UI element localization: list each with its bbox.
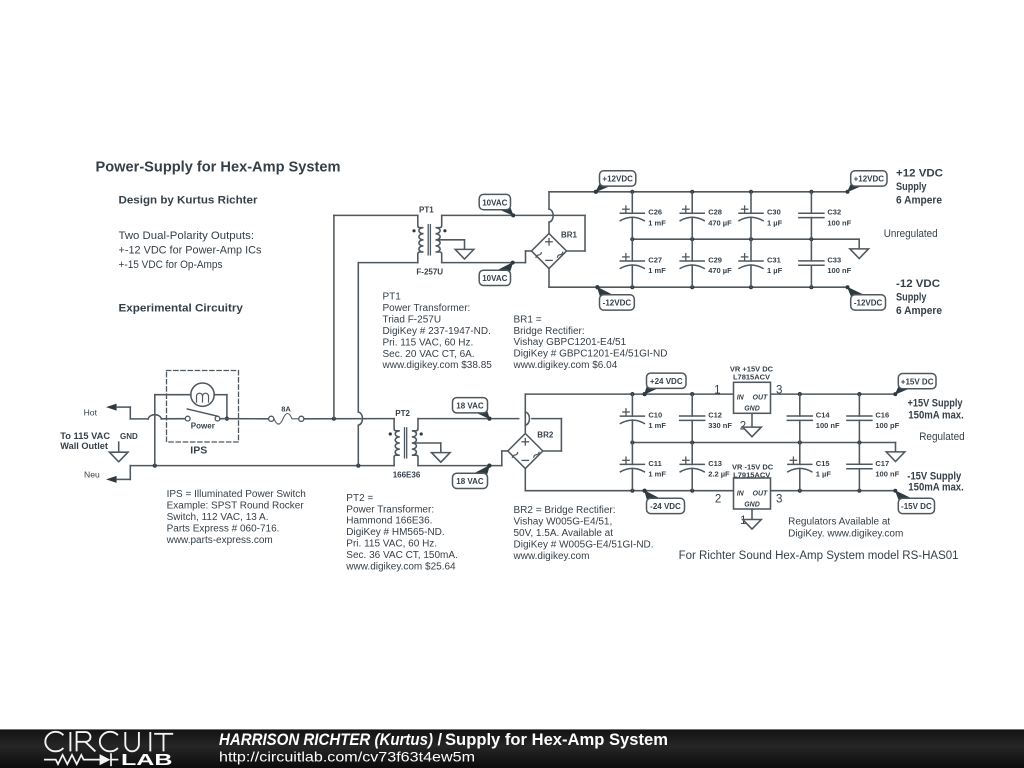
svg-text:Switch, 112 VAC, 13 A.: Switch, 112 VAC, 13 A.	[167, 512, 269, 523]
capacitor C11	[620, 443, 666, 491]
svg-text:10VAC: 10VAC	[482, 198, 507, 207]
net flag -24VDC	[643, 489, 685, 514]
capacitor C17	[847, 443, 900, 491]
wire -15V output rail	[771, 489, 896, 493]
wire PT2 secondary bottom to BR2 ac1	[418, 451, 508, 468]
description paragraph	[119, 230, 262, 271]
svg-text:1 µF: 1 µF	[816, 469, 832, 478]
net flag +12VDC left	[594, 171, 636, 194]
svg-text:Bridge Rectifier:: Bridge Rectifier:	[514, 326, 585, 337]
net flag -12VDC left	[595, 285, 634, 310]
svg-text:Vishay W005G-E4/51,: Vishay W005G-E4/51,	[514, 517, 613, 528]
svg-text:-24 VDC: -24 VDC	[650, 502, 681, 511]
svg-text:For Richter Sound Hex-Amp Syst: For Richter Sound Hex-Amp System model R…	[679, 550, 959, 562]
svg-text:IPS: IPS	[190, 445, 207, 457]
svg-text:100 pF: 100 pF	[875, 421, 899, 430]
ground regulator U1	[743, 413, 762, 436]
svg-text:C11: C11	[648, 459, 661, 468]
svg-text:Power: Power	[191, 422, 215, 431]
svg-text:Neu: Neu	[84, 469, 100, 479]
svg-text:C10: C10	[648, 411, 662, 420]
svg-text:/: /	[438, 731, 443, 749]
logo resistor-diode glyph	[45, 754, 118, 765]
svg-text:BR1 =: BR1 =	[514, 314, 542, 325]
svg-text:http://circuitlab.com/cv73f63t: http://circuitlab.com/cv73f63t4ew5m	[219, 750, 475, 765]
svg-text:470 µF: 470 µF	[708, 266, 732, 275]
svg-text:Experimental Circuitry: Experimental Circuitry	[119, 303, 244, 315]
svg-text:BR1: BR1	[561, 230, 578, 239]
switch Power SPST	[185, 409, 220, 431]
switch IPS dashed enclosure	[167, 371, 239, 443]
svg-text:Supply for Hex-Amp System: Supply for Hex-Amp System	[445, 731, 668, 749]
svg-text:Power-Supply for Hex-Amp Syste: Power-Supply for Hex-Amp System	[96, 158, 341, 175]
capacitor C10	[620, 394, 666, 442]
svg-text:150mA max.: 150mA max.	[908, 481, 964, 493]
svg-text:1 µF: 1 µF	[767, 218, 783, 227]
svg-text:BR2 = Bridge Rectifier:: BR2 = Bridge Rectifier:	[514, 505, 616, 516]
svg-text:10VAC: 10VAC	[482, 274, 507, 283]
capacitor C12	[680, 394, 733, 442]
svg-text:-12VDC: -12VDC	[854, 299, 883, 308]
svg-text:-12VDC: -12VDC	[603, 299, 632, 308]
svg-text:F-257U: F-257U	[416, 267, 443, 276]
svg-text:DigiKey # W005G-E4/51GI-ND.: DigiKey # W005G-E4/51GI-ND.	[514, 540, 654, 551]
net flag 10VAC upper	[479, 194, 515, 217]
svg-text:L7915ACV: L7915ACV	[733, 470, 770, 479]
node Neu	[84, 466, 130, 483]
svg-text:1 mF: 1 mF	[648, 421, 666, 430]
svg-text:Two Dual-Polarity Outputs:: Two Dual-Polarity Outputs:	[119, 230, 255, 242]
svg-text:IN: IN	[737, 395, 745, 402]
wire up to PT1 primary top	[334, 215, 418, 418]
svg-text:GND: GND	[120, 432, 138, 441]
wire BR2 plus output to +24 rail	[524, 394, 526, 433]
note PT1 details	[382, 292, 493, 372]
ground mid rail unregulated	[850, 239, 869, 258]
capacitor C14	[787, 394, 840, 442]
capacitor C29	[680, 239, 732, 287]
wire lamp left branch	[155, 395, 191, 466]
svg-text:Power Transformer:: Power Transformer:	[383, 303, 471, 314]
svg-text:1 mF: 1 mF	[648, 266, 666, 275]
lamp (illumination)	[191, 383, 214, 406]
net flag +24VDC	[643, 373, 686, 396]
svg-text:+12VDC: +12VDC	[854, 175, 885, 184]
svg-text:C30: C30	[767, 208, 781, 217]
svg-text:150mA max.: 150mA max.	[908, 409, 964, 421]
net flag 18VAC upper	[453, 398, 492, 421]
svg-text:1 µF: 1 µF	[767, 266, 783, 275]
note BR1 details	[513, 314, 668, 371]
voltage regulator U1 L7815ACV	[714, 364, 782, 432]
svg-text:C14: C14	[816, 411, 831, 420]
svg-text:Hammond 166E36.: Hammond 166E36.	[346, 516, 432, 527]
svg-text:OUT: OUT	[753, 490, 769, 497]
capacitor C32	[799, 192, 852, 239]
svg-text:PT1: PT1	[383, 292, 402, 303]
svg-text:Wall Outlet: Wall Outlet	[60, 441, 108, 451]
svg-text:1 mF: 1 mF	[648, 469, 666, 478]
svg-text:+-15 VDC for Op-Amps: +-15 VDC for Op-Amps	[119, 259, 223, 271]
note PT2 details	[345, 493, 458, 573]
svg-text:+12VDC: +12VDC	[602, 175, 633, 184]
note regulators availability	[788, 517, 903, 540]
svg-text:C32: C32	[827, 208, 841, 217]
svg-text:Power Transformer:: Power Transformer:	[346, 504, 434, 515]
svg-text:Design by Kurtus Richter: Design by Kurtus Richter	[119, 194, 259, 206]
svg-text:-15V DC: -15V DC	[901, 502, 932, 511]
wire fuse to PT2 primary top	[304, 417, 394, 421]
wire lamp right branch	[214, 395, 229, 421]
svg-text:+-12 VDC for Power-Amp ICs: +-12 VDC for Power-Amp ICs	[119, 244, 262, 256]
svg-text:www.digikey.com: www.digikey.com	[513, 551, 590, 562]
svg-text:1 mF: 1 mF	[648, 218, 666, 227]
label +12 VDC supply	[896, 167, 943, 206]
svg-text:PT2: PT2	[395, 409, 410, 418]
footer title text	[219, 731, 668, 749]
svg-text:3: 3	[776, 384, 782, 396]
svg-text:PT2 =: PT2 =	[346, 493, 373, 504]
svg-text:330 nF: 330 nF	[708, 421, 732, 430]
label -15V supply	[907, 470, 964, 493]
wire PT1 primary bottom to neutral (hops over hot wire)	[358, 263, 418, 466]
svg-text:Regulated: Regulated	[919, 431, 965, 443]
svg-text:+12 VDC: +12 VDC	[896, 167, 943, 179]
svg-text:C29: C29	[708, 255, 722, 264]
svg-text:DigiKey # GBPC1201-E4/51GI-ND: DigiKey # GBPC1201-E4/51GI-ND	[514, 349, 668, 360]
svg-text:To 115 VAC: To 115 VAC	[60, 431, 110, 441]
net flag 18VAC lower	[453, 464, 492, 489]
svg-text:IN: IN	[737, 490, 745, 497]
wire BR2 minus output to -24 rail	[524, 469, 526, 491]
svg-text:C12: C12	[708, 411, 722, 420]
wire PT1 secondary top to BR1 ac2	[442, 215, 585, 251]
net flag 10VAC lower	[479, 261, 515, 286]
svg-text:L7815ACV: L7815ACV	[733, 372, 770, 381]
bridge rectifier BR2	[508, 430, 554, 468]
svg-text:8A: 8A	[281, 404, 291, 413]
svg-text:Supply: Supply	[896, 291, 927, 303]
svg-text:100 nF: 100 nF	[875, 469, 899, 478]
svg-text:50V, 1.5A. Available at: 50V, 1.5A. Available at	[514, 528, 614, 539]
svg-text:Example: SPST Round Rocker: Example: SPST Round Rocker	[167, 500, 305, 511]
logo CIRCUIT (thin stroked letters)	[45, 732, 173, 752]
wire +15V output rail	[771, 392, 896, 396]
svg-text:C31: C31	[767, 255, 781, 264]
svg-text:+24 VDC: +24 VDC	[650, 377, 683, 386]
transformer PT2	[389, 409, 450, 479]
svg-text:C15: C15	[816, 459, 830, 468]
svg-text:Sec. 36 VAC CT, 150mA.: Sec. 36 VAC CT, 150mA.	[346, 550, 458, 561]
wire switch to fuse	[220, 418, 269, 420]
capacitor C16	[847, 394, 900, 442]
wire BR1 plus output up to +12 rail (hop)	[549, 192, 553, 234]
net flag +12VDC right	[846, 171, 888, 194]
svg-text:C27: C27	[648, 255, 662, 264]
svg-text:OUT: OUT	[753, 395, 769, 402]
svg-text:Vishay GBPC1201-E4/51: Vishay GBPC1201-E4/51	[514, 337, 627, 348]
svg-text:C13: C13	[708, 459, 722, 468]
transformer PT1	[412, 206, 473, 277]
svg-text:BR2: BR2	[537, 430, 554, 439]
svg-text:Parts Express # 060-716.: Parts Express # 060-716.	[167, 523, 280, 534]
wire PT1 secondary bottom to BR1 ac1	[442, 251, 532, 263]
capacitor C30	[739, 192, 783, 239]
svg-text:2: 2	[715, 494, 721, 506]
svg-text:18 VAC: 18 VAC	[456, 402, 484, 411]
note IPS details	[166, 489, 306, 546]
wire BR1 minus output to -12 rail	[548, 269, 550, 288]
svg-text:+15V DC: +15V DC	[901, 377, 934, 386]
svg-text:www.digikey.com $6.04: www.digikey.com $6.04	[513, 360, 618, 371]
svg-text:2.2 µF: 2.2 µF	[708, 469, 730, 478]
wire +12VDC unregulated rail	[549, 190, 848, 194]
svg-text:C26: C26	[648, 208, 662, 217]
wire +24VDC rail	[525, 392, 733, 396]
svg-text:Sec. 20 VAC CT, 6A.: Sec. 20 VAC CT, 6A.	[383, 349, 475, 360]
svg-text:6 Ampere: 6 Ampere	[896, 194, 942, 206]
capacitor C28	[680, 192, 732, 239]
wire hot to switch (hops over lamp branch)	[130, 415, 185, 419]
svg-text:DigiKey. www.digikey.com: DigiKey. www.digikey.com	[788, 529, 903, 540]
capacitor C33	[799, 239, 852, 287]
ground mid rail regulated	[886, 443, 905, 462]
wire -12VDC unregulated rail	[549, 285, 848, 289]
net flag -15V DC	[893, 489, 934, 514]
svg-text:18 VAC: 18 VAC	[456, 477, 484, 486]
note BR2 details	[513, 505, 654, 562]
label -12 VDC supply	[896, 278, 942, 317]
svg-text:C17: C17	[875, 459, 889, 468]
capacitor C27	[620, 239, 666, 287]
svg-text:470 µF: 470 µF	[708, 218, 732, 227]
svg-text:PT1: PT1	[419, 206, 434, 215]
svg-text:Unregulated: Unregulated	[884, 228, 938, 240]
svg-text:+15V Supply: +15V Supply	[908, 397, 964, 409]
capacitor C26	[620, 192, 666, 239]
net flag -12VDC right	[846, 285, 886, 310]
ground regulator U2	[743, 509, 762, 529]
capacitor C31	[739, 239, 783, 287]
svg-text:GND: GND	[744, 501, 760, 508]
ground GND wall outlet	[109, 432, 138, 462]
label To 115 VAC Wall Outlet	[60, 431, 110, 451]
wire neutral rail	[130, 464, 394, 468]
svg-text:166E36: 166E36	[393, 470, 421, 479]
svg-text:IPS = Illuminated Power Switch: IPS = Illuminated Power Switch	[167, 489, 306, 500]
svg-text:Triad F-257U: Triad F-257U	[383, 314, 442, 325]
voltage regulator U2 L7915ACV	[715, 462, 783, 527]
svg-text:Supply: Supply	[896, 181, 927, 193]
fuse F1 8A	[269, 404, 304, 424]
svg-text:www.digikey.com $38.85: www.digikey.com $38.85	[382, 360, 493, 371]
svg-text:100 nF: 100 nF	[827, 266, 851, 275]
bridge rectifier BR1	[532, 230, 578, 268]
svg-text:www.digikey.com $25.64: www.digikey.com $25.64	[345, 562, 456, 573]
svg-text:DigiKey # 237-1947-ND.: DigiKey # 237-1947-ND.	[383, 326, 491, 337]
wire 0V mid rail unregulated	[630, 237, 859, 241]
svg-text:Pri. 115 VAC, 60 Hz.: Pri. 115 VAC, 60 Hz.	[383, 337, 474, 348]
label +15V supply	[908, 397, 964, 421]
footer bar	[0, 729, 1024, 768]
svg-text:1: 1	[714, 384, 720, 396]
svg-text:6 Ampere: 6 Ampere	[896, 305, 942, 317]
svg-text:HARRISON RICHTER (Kurtus): HARRISON RICHTER (Kurtus)	[219, 731, 433, 749]
capacitor C13	[680, 443, 730, 491]
svg-text:Hot: Hot	[84, 407, 98, 417]
svg-text:www.parts-express.com: www.parts-express.com	[166, 535, 273, 546]
svg-text:C16: C16	[875, 411, 889, 420]
capacitor C15	[788, 443, 832, 491]
wire PT2 secondary top to BR2 ac2 (hop)	[418, 412, 561, 451]
svg-text:Regulators Available at: Regulators Available at	[788, 517, 890, 528]
svg-text:GND: GND	[744, 406, 760, 413]
svg-text:DigiKey # HM565-ND.: DigiKey # HM565-ND.	[346, 527, 444, 538]
wire -24VDC rail	[525, 489, 733, 493]
svg-text:C28: C28	[708, 208, 722, 217]
svg-text:C33: C33	[827, 255, 841, 264]
node Hot	[84, 404, 131, 419]
svg-text:3: 3	[776, 494, 782, 506]
wire 0V mid rail regulated	[630, 440, 895, 444]
svg-text:LAB: LAB	[121, 752, 173, 768]
svg-text:-12 VDC: -12 VDC	[896, 278, 940, 290]
svg-text:100 nF: 100 nF	[816, 421, 840, 430]
net flag +15V DC	[893, 374, 936, 397]
svg-text:Pri. 115 VAC, 60 Hz.: Pri. 115 VAC, 60 Hz.	[346, 539, 437, 550]
svg-text:100 nF: 100 nF	[827, 218, 851, 227]
